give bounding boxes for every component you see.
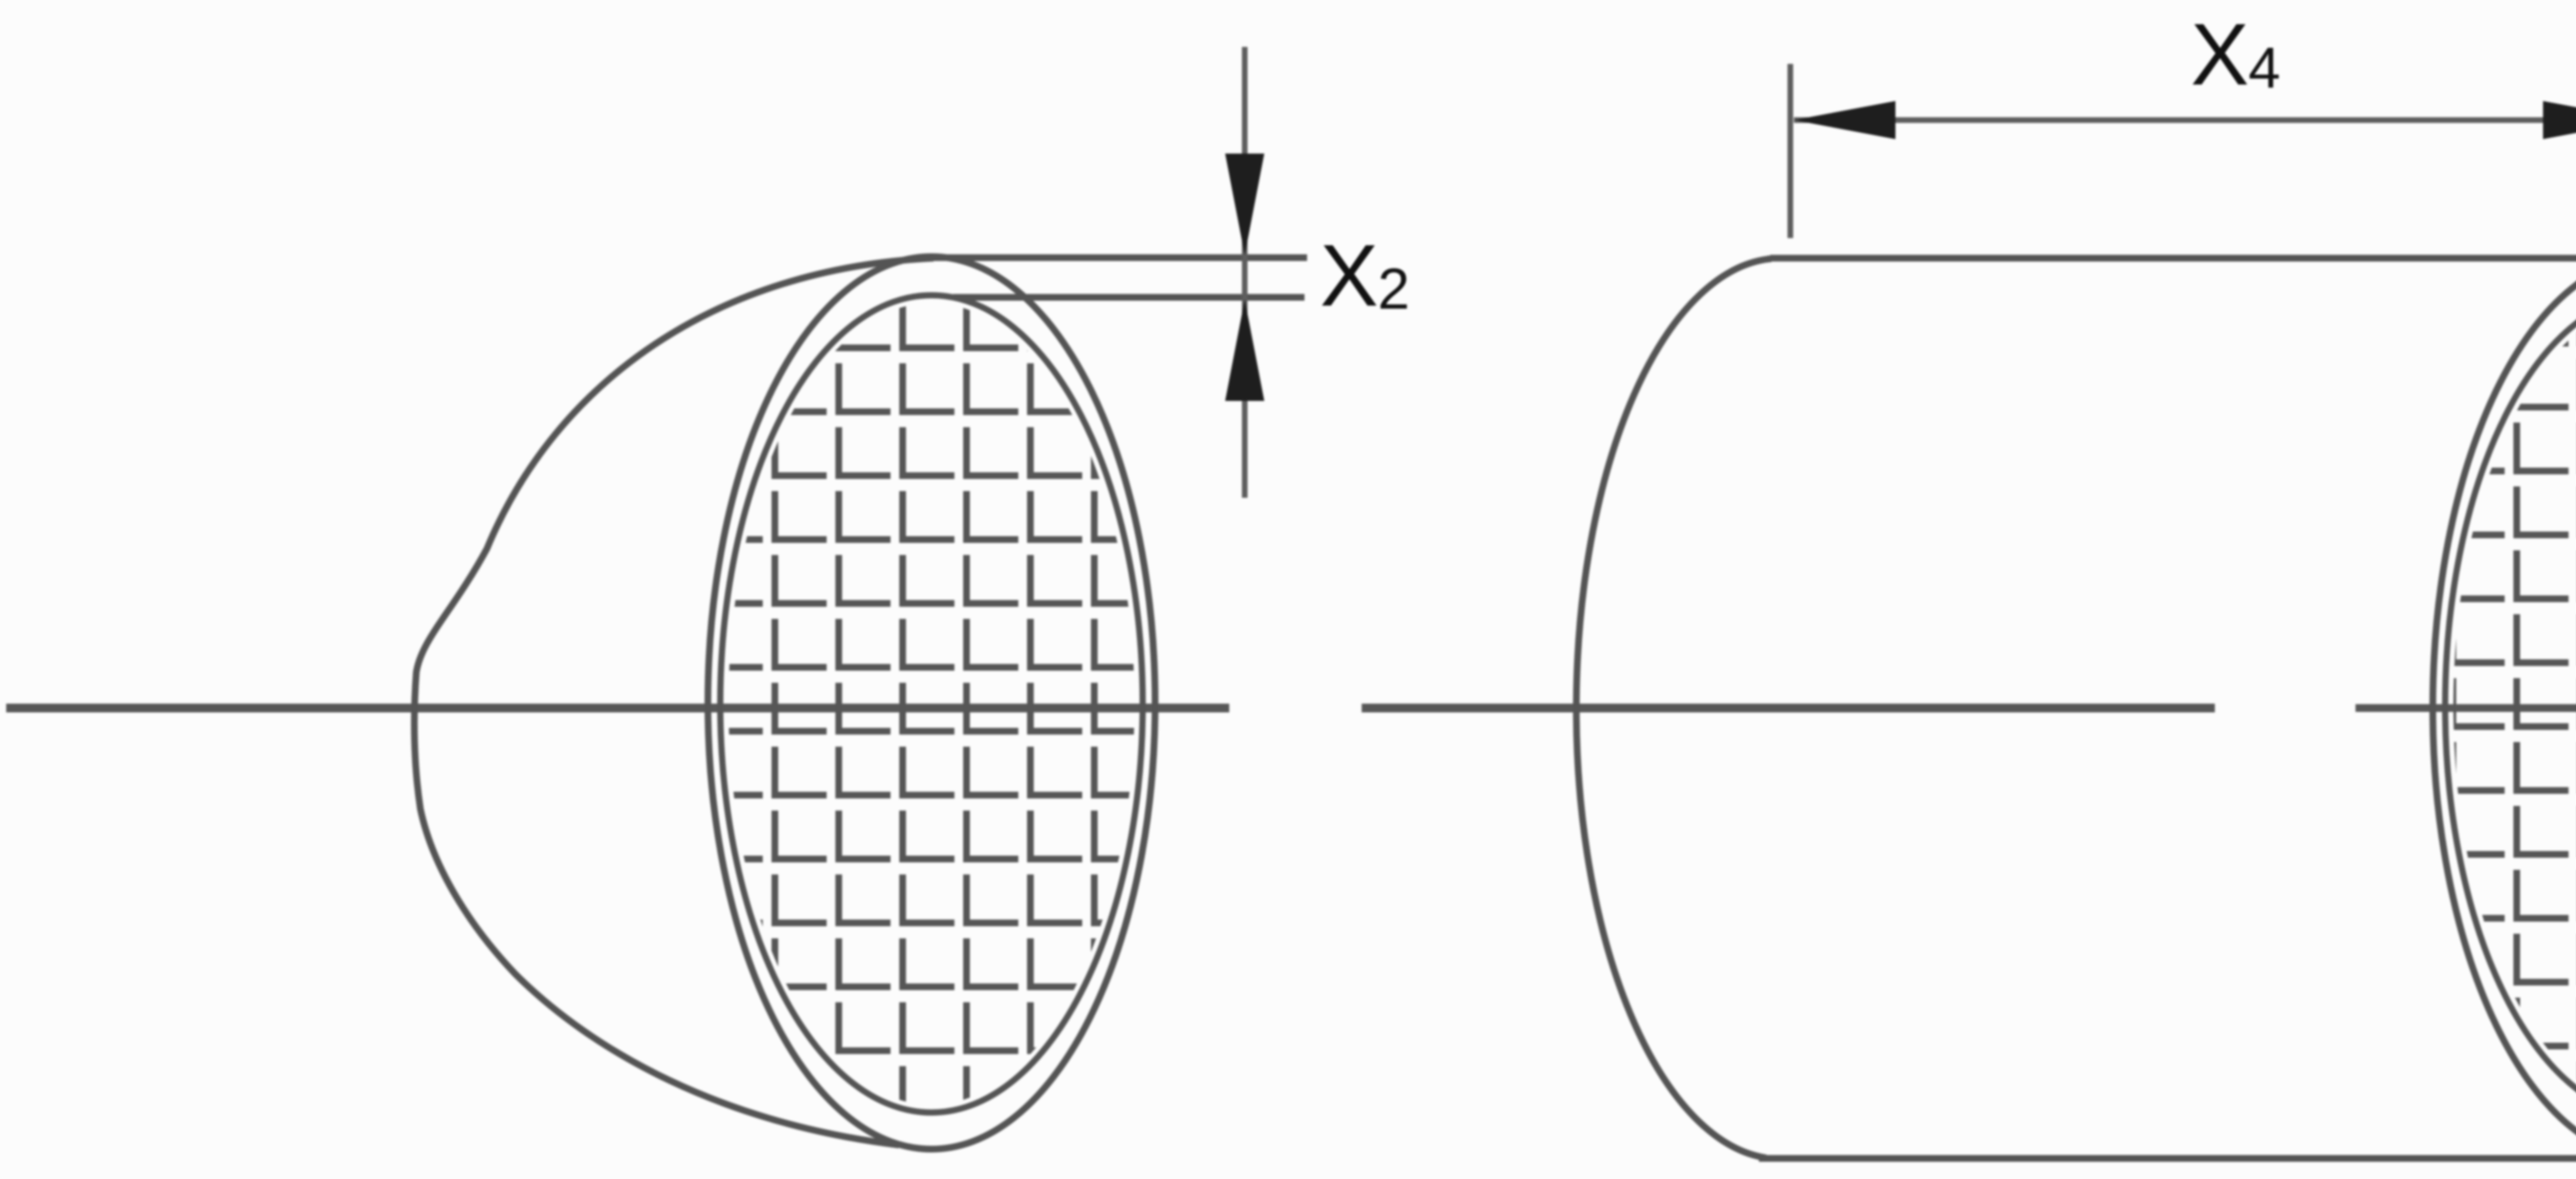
svg-text:2: 2 [1378, 257, 1410, 321]
svg-text:X: X [1320, 227, 1378, 325]
mesh hatch of left substrate [708, 257, 1156, 1153]
outer ellipse of right end face [2433, 258, 2576, 1158]
cylinder top line (also X1 upper extension) [1770, 255, 2576, 262]
X2 upper extension line (from outer shell top) [927, 255, 1307, 261]
X4 dimension line (horizontal) [1794, 117, 2576, 123]
X4 arrowhead pointing left [1794, 101, 1895, 139]
centerline of left converter body [6, 704, 1229, 713]
mesh hatch of right substrate [2433, 258, 2576, 1159]
X4 left extension line [1788, 64, 1793, 238]
outer ellipse of left end face [708, 257, 1155, 1149]
cylinder left end arc [1577, 259, 1771, 1158]
svg-text:4: 4 [2248, 36, 2280, 100]
X2 arrowhead pointing up [1225, 299, 1264, 401]
svg-text:X: X [2191, 6, 2249, 104]
X2 arrowhead pointing down [1225, 154, 1264, 255]
cylinder bottom line [1759, 1155, 2576, 1162]
X2 lower extension line (from substrate top) [953, 294, 1304, 301]
dome outline of left converter end [414, 258, 934, 1145]
centerline of right converter body, right segment [2355, 704, 2576, 712]
X2 dimension line (vertical) [1242, 47, 1248, 498]
centerline of right converter body, left segment [1362, 704, 2215, 713]
inner ellipse (mat boundary) of left end face [720, 295, 1143, 1113]
X4 arrowhead pointing right [2543, 101, 2576, 139]
inner ellipse (mat boundary) of right end face [2445, 295, 2576, 1117]
